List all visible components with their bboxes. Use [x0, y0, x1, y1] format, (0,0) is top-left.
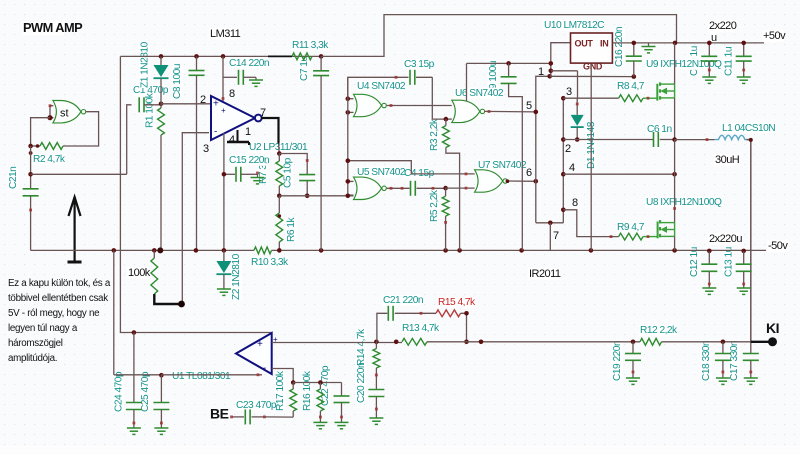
label C11 1u: [723, 47, 734, 76]
svg-text:Ez a kapu külön tok, és a: Ez a kapu külön tok, és a: [8, 278, 111, 289]
node inv node: [291, 380, 296, 385]
node R16 top: [318, 380, 323, 385]
label U4 SN7402: [356, 81, 406, 92]
svg-text:U7 SN7402: U7 SN7402: [478, 160, 527, 171]
wire C1 branch: [127, 105, 132, 175]
svg-text:-: -: [214, 127, 217, 138]
svg-text:legyen túl nagy a: legyen túl nagy a: [8, 323, 78, 334]
ground C17: [744, 378, 758, 384]
svg-text:C21n: C21n: [8, 167, 19, 189]
capacitor C18 330n: [715, 342, 731, 378]
svg-text:C15 220n: C15 220n: [229, 155, 269, 166]
node out row: [479, 340, 726, 345]
pin 4: [569, 162, 575, 174]
svg-text:R10 3,3k: R10 3,3k: [251, 257, 289, 268]
ground near C16: [642, 43, 656, 53]
wire left col to -50 rail: [113, 250, 115, 374]
node U5 inputs: [346, 179, 351, 198]
wire pin row bottom: [536, 222, 564, 224]
wire U8 source: [673, 207, 676, 250]
node OUT col: [549, 61, 554, 73]
svg-text:R12 2,2k: R12 2,2k: [640, 325, 678, 336]
label KI: [766, 320, 779, 336]
resistor R1 100k: [158, 108, 165, 135]
ground C13: [737, 288, 751, 294]
wire st output: [63, 112, 99, 146]
wire audio out row: [427, 341, 751, 343]
svg-text:C22 470p: C22 470p: [320, 365, 331, 406]
wire R16 row: [293, 382, 341, 384]
node p3: [561, 96, 566, 101]
wire mid column: [674, 140, 676, 223]
wire Z1 to node: [160, 78, 162, 104]
ground C25: [154, 428, 168, 434]
label C21n: [8, 167, 19, 189]
svg-text:u: u: [711, 32, 717, 44]
pin 4: [229, 134, 235, 146]
resistor R3 2,2k: [443, 119, 450, 147]
svg-text:R11 3,3k: R11 3,3k: [292, 40, 329, 51]
svg-text:C12 1u: C12 1u: [689, 247, 700, 277]
wire pin col 563: [562, 98, 564, 223]
svg-text:C14 220n: C14 220n: [229, 58, 269, 69]
label R14 4,7k: [356, 328, 367, 366]
capacitor C4 15p: [411, 181, 446, 196]
node C9 top: [506, 61, 511, 66]
svg-text:Z2 1N2810: Z2 1N2810: [231, 253, 242, 300]
node st input: [47, 104, 52, 120]
label GND: [583, 62, 603, 72]
svg-text:st: st: [60, 108, 69, 120]
wire output to R7: [278, 144, 281, 154]
svg-text:R15 4,7k: R15 4,7k: [438, 297, 476, 308]
svg-text:C25 470p: C25 470p: [140, 371, 151, 412]
zener Z2: [216, 250, 231, 289]
wire minus feed row: [114, 374, 162, 376]
wire IN to rail: [612, 42, 764, 44]
wire 100k black: [154, 294, 181, 304]
label Z1 1N2810: [139, 41, 150, 88]
label LM311: [209, 28, 241, 40]
rail junction nodes: [112, 247, 747, 253]
svg-text:többivel ellentétben csak: többivel ellentétben csak: [8, 293, 108, 304]
capacitor C14 220n: [223, 70, 256, 85]
capacitor C3 15p: [348, 70, 433, 99]
wire pin8 to R9: [563, 210, 618, 238]
label C14 220n: [228, 58, 269, 69]
node C7 top: [319, 54, 324, 59]
ground C15: [251, 172, 265, 184]
wire top supply bus: [120, 55, 268, 57]
wire plus output row: [272, 342, 402, 344]
wire R1 leads: [160, 104, 162, 251]
svg-text:30uH: 30uH: [715, 154, 740, 166]
node fb node: [132, 330, 137, 335]
label L1 04CS10N: [721, 123, 775, 134]
resistor R14 4,7k: [373, 342, 380, 390]
node C16 top: [632, 41, 637, 46]
label C22 470p: [320, 365, 331, 406]
label D1 1N4148: [586, 121, 597, 169]
label R5 2,2k: [429, 189, 440, 222]
pin 2: [200, 94, 206, 106]
node R15: [464, 311, 469, 344]
svg-text:-: -: [263, 363, 266, 374]
label C16 220n: [614, 27, 625, 67]
wire pin2: [161, 103, 211, 105]
ground R16: [313, 422, 327, 428]
svg-text:C7 1u: C7 1u: [299, 56, 310, 81]
svg-text:OUT: OUT: [575, 39, 594, 49]
wire to L1: [675, 138, 715, 141]
label U9 IXFH12N100Q: [645, 59, 722, 70]
label C6 1n: [646, 124, 672, 135]
capacitor C7 1u: [313, 56, 329, 250]
label R10 3,3k: [250, 257, 289, 268]
node pin1: [547, 74, 552, 79]
label R1 100k: [144, 92, 155, 128]
pin 5: [526, 100, 532, 112]
wire input column: [347, 77, 349, 196]
capacitor C15 220n: [224, 167, 252, 182]
resistor R10 3,3k: [254, 247, 272, 254]
svg-text:U6 SN7402: U6 SN7402: [455, 88, 504, 99]
resistor R13 4,7k: [402, 338, 427, 345]
node D1: [575, 137, 580, 142]
ground C22: [335, 422, 349, 428]
NOR gate U6 SN7402: [452, 100, 485, 122]
wire U5 output: [387, 187, 410, 190]
wire pin3 R8 row: [563, 97, 618, 99]
wire KI column: [747, 140, 751, 342]
diode D1 1N4148: [571, 98, 584, 139]
wire output black: [261, 118, 279, 144]
wire KI terminal: [751, 341, 770, 343]
inductor L1: [715, 135, 750, 139]
node C21n: [28, 172, 33, 177]
capacitor C6 1n: [654, 132, 675, 147]
node U7 out: [534, 179, 539, 184]
pin 6: [526, 167, 532, 179]
svg-text:C13 1u: C13 1u: [724, 247, 735, 277]
svg-text:R14 4,7k: R14 4,7k: [356, 328, 367, 366]
label U6 SN7402: [454, 88, 504, 99]
wire C1 right: [144, 104, 161, 106]
label R3 2,2k: [429, 118, 440, 151]
svg-text:R17 100k: R17 100k: [275, 370, 286, 411]
capacitor C8 100u: [189, 56, 205, 250]
label C18 330n: [701, 341, 712, 381]
resistor R17 100k: [290, 383, 297, 418]
node black: [178, 301, 185, 308]
wire left feedback column: [120, 56, 271, 332]
wire to U7 input: [446, 187, 475, 190]
node C25 top: [159, 373, 164, 378]
resistor R8 4,7: [619, 95, 658, 102]
svg-text:C5 10p: C5 10p: [283, 157, 294, 188]
label C12 1u: [689, 247, 700, 277]
label R8 4,7: [616, 81, 645, 92]
svg-text:C6 1n: C6 1n: [647, 124, 672, 135]
wire U5 inputs: [348, 181, 354, 195]
op-amp U2 LM311: [211, 96, 262, 140]
svg-text:2x220u: 2x220u: [709, 233, 742, 245]
node +50 junction: [673, 41, 678, 46]
svg-text:C21 220n: C21 220n: [383, 295, 423, 306]
wire C21n top: [30, 146, 32, 189]
node p2: [561, 137, 566, 142]
label 2x220 top: [708, 20, 737, 44]
svg-text:+: +: [221, 106, 226, 115]
capacitor C21n: [23, 189, 39, 196]
svg-text:L1 04CS10N: L1 04CS10N: [722, 123, 775, 134]
label C17 330n: [729, 341, 740, 381]
wire U7 output: [506, 179, 536, 183]
label C24 470p: [113, 371, 124, 412]
svg-text:4: 4: [569, 162, 575, 174]
node fb: [346, 158, 351, 163]
wire -50v rail: [31, 249, 766, 251]
wire top loop: [321, 15, 676, 57]
svg-text:R5 2,2k: R5 2,2k: [429, 189, 440, 222]
wire fb row: [349, 161, 475, 176]
svg-text:U8 IXFH12N100Q: U8 IXFH12N100Q: [646, 197, 722, 208]
svg-text:R9 4,7: R9 4,7: [617, 222, 645, 233]
node pin2: [159, 102, 164, 107]
wire C3 to U6 input: [432, 77, 446, 119]
node 7col: [548, 221, 553, 226]
svg-text:3: 3: [566, 86, 572, 98]
regulator U10 LM7812C box: [571, 33, 613, 63]
svg-text:U1 TL081/301: U1 TL081/301: [172, 371, 231, 382]
label R15 4,7k: [437, 297, 476, 308]
label U10 LM7812C: [543, 20, 604, 31]
NOR gate U7 SN7402: [475, 170, 508, 192]
wire st input to R2: [31, 118, 50, 146]
resistor R11 3,3k: [292, 53, 312, 60]
label R17 100k: [275, 370, 286, 411]
label R9 4,7: [616, 222, 645, 233]
svg-text:+: +: [213, 99, 219, 110]
label C4 15p: [403, 168, 435, 179]
capacitor C11 1u: [736, 43, 752, 77]
label Z2 1N2810: [231, 253, 242, 300]
wire top bus: [292, 55, 321, 57]
svg-text:PWM AMP: PWM AMP: [23, 20, 83, 35]
wire U6 output: [485, 110, 536, 113]
label -50v: [767, 240, 788, 252]
resistor R6 1k: [276, 196, 283, 251]
pin 7: [260, 107, 266, 119]
label R16 100k: [302, 370, 313, 411]
capacitor C12 1u: [701, 251, 717, 288]
wire pin2 C6 row: [563, 139, 653, 141]
node C4 out: [443, 186, 448, 191]
svg-text:C23 470p: C23 470p: [236, 400, 277, 411]
note text block: [8, 278, 111, 364]
svg-text:C3 15p: C3 15p: [404, 59, 435, 70]
label C13 1u: [723, 247, 734, 277]
node C10: [707, 41, 712, 46]
wire R3 bottom: [446, 148, 460, 251]
zener Z1: [154, 65, 169, 78]
resistor R15 4,7k red: [436, 310, 467, 342]
svg-text:U4 SN7402: U4 SN7402: [357, 81, 406, 92]
wire U6 lower input: [446, 118, 452, 120]
svg-text:3: 3: [203, 143, 209, 155]
capacitor C23 470p: [230, 409, 264, 424]
wire 12Vb row: [551, 71, 578, 98]
NOR gate U3 'st' (oscillator): [53, 101, 86, 123]
svg-text:8: 8: [572, 197, 578, 209]
mosfet U8 IXFH12N100Q: [658, 220, 675, 238]
ground C12: [702, 288, 716, 294]
svg-text:+: +: [257, 339, 263, 350]
node U4 inputs: [346, 96, 351, 114]
node C8 top: [194, 54, 199, 59]
capacitor C16 220n: [626, 43, 642, 77]
svg-text:C11 1u: C11 1u: [724, 47, 735, 76]
capacitor C5 10p: [299, 175, 315, 196]
svg-text:100k: 100k: [128, 267, 151, 279]
label C3 15p: [403, 59, 435, 70]
ground C10: [702, 77, 716, 83]
node R14 top: [374, 340, 398, 345]
svg-text:U10 LM7812C: U10 LM7812C: [544, 20, 604, 31]
wire to U1: [161, 373, 262, 376]
capacitor C9 100u: [501, 63, 523, 250]
node half bridge: [672, 137, 677, 176]
wire C23 row: [263, 416, 293, 419]
svg-text:KI: KI: [766, 320, 779, 336]
node L1 corner: [749, 138, 753, 142]
ground C20: [369, 418, 383, 424]
label C21 220n: [382, 295, 423, 306]
ground C18: [716, 378, 730, 384]
pin 3: [566, 86, 572, 98]
wire pin4 stub: [227, 130, 249, 145]
label C1 470p: [132, 85, 169, 96]
wire bus black stub: [268, 55, 292, 57]
node bus195: [277, 194, 310, 199]
svg-text:R8 4,7: R8 4,7: [617, 81, 645, 92]
label C20 220n: [356, 363, 367, 403]
wire pin3: [182, 133, 209, 304]
node KI: [768, 337, 777, 346]
node C11: [741, 41, 746, 46]
resistor R12 2,2k: [640, 338, 662, 345]
title PWM AMP: [22, 20, 83, 35]
svg-text:7: 7: [553, 230, 559, 242]
capacitor C1 470p: [139, 97, 144, 112]
pin 1: [245, 126, 251, 138]
svg-text:Z1 1N2810: Z1 1N2810: [140, 41, 151, 88]
resistor R16 100k: [317, 383, 324, 423]
label U7 SN7402: [477, 160, 527, 171]
wire pin3 column: [223, 133, 225, 251]
ground C24: [127, 428, 141, 434]
svg-text:R1 100k: R1 100k: [145, 92, 156, 128]
svg-text:IR2011: IR2011: [529, 268, 561, 280]
mosfet U9 IXFH12N100Q: [657, 82, 674, 100]
wire to rail: [549, 223, 551, 251]
wire U4 inputs: [348, 99, 354, 113]
capacitor C10 1u: [701, 43, 717, 77]
wire OUT column: [551, 43, 571, 77]
resistor 100k: [151, 250, 158, 294]
wire pin1 column: [536, 76, 550, 223]
label +50v: [762, 30, 786, 42]
svg-text:C18 330n: C18 330n: [701, 341, 712, 381]
label R11 3,3k: [291, 40, 329, 51]
wire R2 left: [31, 145, 40, 147]
label C25 470p: [140, 371, 151, 412]
pin 7: [553, 230, 559, 242]
svg-text:1: 1: [245, 126, 251, 138]
capacitor C24 470p: [126, 333, 142, 429]
capacitor C20 220n: [368, 390, 384, 419]
wire minus input: [272, 369, 294, 383]
capacitor C19 220n: [625, 342, 641, 378]
resistor R5 2,2k: [442, 188, 449, 250]
label R2 4,7k: [32, 154, 66, 165]
label C5 10p: [282, 157, 293, 188]
node R2: [28, 144, 39, 155]
wire U4 output: [387, 104, 452, 107]
svg-text:R16 100k: R16 100k: [302, 370, 313, 411]
ground C11: [737, 77, 751, 83]
svg-text:8: 8: [229, 88, 235, 100]
label U5 SN7402: [356, 167, 406, 178]
label C23 470p: [235, 400, 277, 411]
svg-text:C24 470p: C24 470p: [114, 371, 125, 412]
NOR gate U5 SN7402: [354, 177, 387, 199]
wire U6 supply: [466, 63, 468, 101]
pin 8: [572, 197, 578, 209]
node U6 out col: [534, 110, 539, 115]
wire pin1 row: [550, 75, 634, 77]
node pin8: [221, 54, 226, 59]
node U6 input: [444, 117, 449, 122]
svg-text:2: 2: [565, 143, 571, 155]
capacitor C13 1u: [736, 251, 752, 288]
label IR2011: [528, 268, 561, 280]
ground C14: [249, 77, 263, 86]
svg-text:R6 1k: R6 1k: [286, 217, 297, 242]
label R12 2,2k: [639, 325, 678, 336]
label R13 4,7k: [401, 323, 440, 334]
pin 2: [565, 143, 571, 155]
svg-text:5: 5: [526, 100, 532, 112]
arrow signal marker: [68, 197, 82, 262]
pin 8: [229, 88, 235, 100]
capacitor C21 220n: [377, 306, 436, 342]
ground C19: [626, 378, 640, 384]
svg-text:C20 220n: C20 220n: [356, 363, 367, 403]
label U2 LP311/301: [248, 142, 308, 153]
label 100k: [127, 267, 151, 279]
wire pin4 row: [563, 173, 674, 175]
wire st inputs tie: [50, 106, 53, 118]
label BE: [210, 406, 229, 422]
node C15: [222, 172, 227, 177]
capacitor C17 330n: [743, 342, 759, 378]
wire bus 195: [279, 195, 353, 197]
label C15 220n: [228, 155, 269, 166]
wire pin8: [222, 56, 225, 102]
svg-text:6: 6: [526, 167, 532, 179]
svg-text:C16 220n: C16 220n: [614, 27, 625, 67]
